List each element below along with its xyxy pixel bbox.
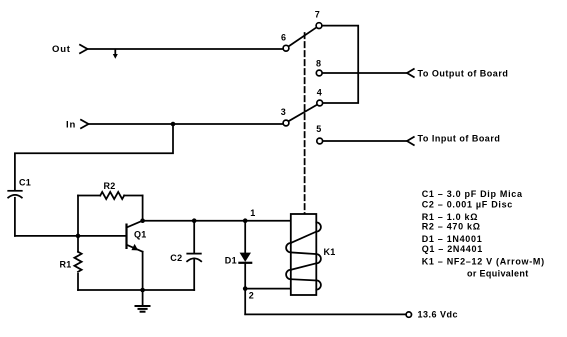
svg-text:K1 – NF2–12 V (Arrow-M): K1 – NF2–12 V (Arrow-M) <box>422 256 545 266</box>
svg-text:Q1: Q1 <box>134 229 147 239</box>
svg-text:In: In <box>66 119 76 130</box>
svg-text:13.6 Vdc: 13.6 Vdc <box>418 310 459 320</box>
svg-text:K1: K1 <box>324 247 336 257</box>
svg-text:To Output of Board: To Output of Board <box>418 68 509 78</box>
svg-text:C2: C2 <box>170 253 182 263</box>
svg-text:5: 5 <box>316 124 321 134</box>
svg-text:R2: R2 <box>104 181 116 191</box>
svg-text:C1: C1 <box>19 177 31 187</box>
svg-text:2: 2 <box>249 291 254 301</box>
svg-text:D1: D1 <box>225 255 237 265</box>
svg-text:3: 3 <box>281 107 286 117</box>
svg-text:or Equivalent: or Equivalent <box>467 268 529 278</box>
svg-text:6: 6 <box>281 32 286 42</box>
svg-text:8: 8 <box>316 59 321 69</box>
svg-text:R1 – 1.0 kΩ: R1 – 1.0 kΩ <box>422 212 478 222</box>
svg-text:C1 – 3.0 pF Dip Mica: C1 – 3.0 pF Dip Mica <box>422 189 523 199</box>
svg-text:C2 – 0.001 µF Disc: C2 – 0.001 µF Disc <box>422 200 513 210</box>
svg-text:Out: Out <box>52 44 71 55</box>
svg-text:1: 1 <box>250 208 255 218</box>
svg-text:D1 – 1N4001: D1 – 1N4001 <box>422 234 483 244</box>
svg-text:To Input of Board: To Input of Board <box>418 134 501 144</box>
svg-text:Q1 – 2N4401: Q1 – 2N4401 <box>422 244 483 254</box>
svg-text:R2 – 470 kΩ: R2 – 470 kΩ <box>422 222 481 232</box>
svg-text:7: 7 <box>315 10 320 20</box>
svg-text:R1: R1 <box>60 259 72 269</box>
svg-text:4: 4 <box>317 88 322 98</box>
